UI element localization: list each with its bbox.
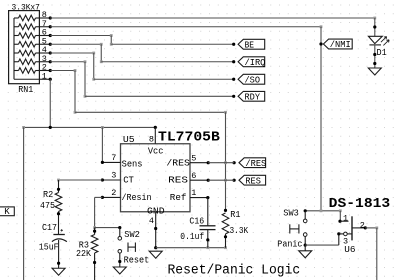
svg-text:1: 1 [42, 71, 47, 81]
wire: RN1 pin2 to pull-up rail [50, 70, 75, 72]
ground symbol below SW3 [304, 245, 306, 251]
RN1 pin 4 [39, 52, 50, 54]
U6 body bar [351, 216, 353, 240]
svg-text:TL7705B: TL7705B [158, 130, 220, 146]
capacitor C16 [200, 225, 216, 227]
wire: RN1 pin4 jog to /SO row [50, 52, 94, 54]
U6 pin 2 (output) [352, 227, 365, 229]
svg-text:/RES: /RES [166, 157, 190, 168]
wire: Vcc rail drop off-sheet (left) [23, 127, 25, 280]
svg-text:/NMI: /NMI [330, 40, 351, 50]
svg-text:2: 2 [111, 188, 116, 198]
wire: pin6 to RES flag [208, 179, 234, 181]
net flag (clipped) K at left edge [0, 207, 14, 216]
svg-text:U5: U5 [123, 134, 135, 145]
svg-text:475: 475 [40, 201, 55, 211]
IC U6 (DS-1813) pin 1 [339, 211, 341, 221]
svg-text:C16: C16 [189, 215, 204, 226]
svg-text:2: 2 [360, 220, 365, 230]
svg-text:Reset: Reset [124, 256, 150, 266]
ground symbol below D1 [368, 68, 381, 75]
net flag BE [238, 39, 265, 49]
U5 pin 3 (CT) [102, 179, 120, 181]
wire: RN1 pin5 jog to /IRQ row [50, 43, 101, 45]
U5 pin 2 (/Resin) [102, 196, 120, 198]
RN1 resistor element 8 [14, 17, 19, 19]
RN1 pin 5 [39, 43, 50, 45]
svg-text:R2: R2 [43, 190, 53, 200]
svg-text:Sens: Sens [122, 158, 143, 169]
resistor R2 [58, 180, 60, 193]
ground symbol below SW2 [113, 267, 126, 274]
svg-text:R1: R1 [230, 210, 240, 220]
RN1 pin 3 [39, 61, 50, 63]
svg-text:0.1uf: 0.1uf [180, 232, 204, 242]
svg-text:CT: CT [123, 175, 134, 185]
svg-text:RN1: RN1 [18, 85, 33, 95]
svg-text:DS-1813: DS-1813 [329, 196, 391, 212]
wire: DS-1813 top rail [305, 210, 340, 212]
RN1 internal common bus [13, 18, 15, 79]
RN1 resistor element 4 [14, 52, 19, 54]
net flag /NMI [323, 39, 352, 49]
net flag RES [239, 175, 266, 185]
svg-text:SW2: SW2 [124, 230, 140, 240]
D1 light arrows [381, 37, 389, 46]
svg-text:8: 8 [149, 134, 154, 144]
svg-text:7: 7 [111, 153, 116, 163]
wire: SW3 bottom rail to U6 pin 3 [305, 244, 339, 246]
U5 pin 6 (RES) [190, 179, 208, 181]
ground symbol below C17 [52, 268, 65, 275]
RN1 resistor element 7 [14, 26, 19, 28]
svg-text:Ref: Ref [170, 192, 187, 203]
RN1 pin 7 [39, 26, 50, 28]
svg-text:15uF: 15uF [39, 242, 59, 252]
net flag RDY [238, 91, 265, 101]
wire: pin5 to /RES flag [208, 162, 234, 164]
svg-text:K: K [4, 207, 10, 217]
svg-text:U6: U6 [344, 245, 355, 255]
wire: RN1 pin6 jog to BE row [50, 35, 111, 37]
wire: node to SW2 [95, 227, 120, 229]
svg-text:RDY: RDY [245, 93, 261, 103]
svg-text:1: 1 [343, 214, 348, 224]
RN1 resistor element 2 [14, 70, 19, 72]
wire: RN1 pin1 to Vcc rail [49, 79, 51, 127]
svg-text:SW3: SW3 [283, 208, 299, 218]
svg-text:3.3K: 3.3K [230, 226, 249, 236]
svg-text:BE: BE [245, 40, 255, 50]
net flag /SO [238, 74, 265, 84]
switch SW2 (pushbutton) [119, 228, 121, 237]
svg-text:/IRQ: /IRQ [245, 58, 266, 68]
op-amp-like IC U5 body (TL7705B) [121, 144, 191, 212]
U5 pin 8 (Vcc) [154, 127, 156, 143]
wire: U6 pin2 off-sheet (bottom right) [365, 227, 377, 229]
wire: CT row to R2 [59, 179, 103, 181]
capacitor C17 (polarized) [53, 234, 64, 236]
U5 pin 1 (Ref) [190, 197, 208, 199]
resistor network RN1 body [9, 11, 40, 84]
svg-text:1: 1 [191, 188, 196, 198]
RN1 pin 2 [39, 70, 50, 72]
resistor R1 [224, 209, 227, 212]
svg-text:6: 6 [191, 171, 196, 181]
net flag /RES [239, 158, 266, 168]
wire: pull-up rail vertical to R1 [225, 112, 227, 210]
RN1 pin 8 [39, 17, 50, 19]
svg-text:/SO: /SO [245, 75, 261, 85]
U6 pin 3 (inverted input) [338, 234, 340, 245]
ground symbol below U5 pin 4 [149, 251, 162, 258]
svg-text:/Resin: /Resin [122, 193, 152, 203]
wire: ground rail under U5 [156, 247, 226, 249]
svg-text:5: 5 [191, 153, 196, 163]
wire: RN1 pin3 jog to RDY row [50, 61, 85, 63]
net flag /IRQ [238, 57, 265, 67]
RN1 resistor element 5 [14, 43, 19, 45]
svg-text:3: 3 [111, 171, 116, 181]
svg-text:D1: D1 [377, 48, 387, 58]
svg-text:Vcc: Vcc [148, 145, 164, 156]
svg-text:RES: RES [245, 176, 261, 186]
wire: D1 cathode to ground [374, 45, 376, 68]
resistor R3 [94, 228, 96, 235]
svg-text:/RES: /RES [245, 159, 266, 169]
wire: RN1 pin7 row to /NMI column [50, 26, 321, 28]
wire: Vcc rail [24, 126, 156, 128]
wire: U5 pin2 to R3/SW2 node [95, 196, 103, 198]
wire: RN1 pin8 row to D1 column [50, 17, 375, 19]
svg-text:4: 4 [149, 216, 154, 226]
svg-text:C17: C17 [42, 223, 57, 233]
RN1 pin 1 [39, 78, 50, 80]
RN1 resistor element 3 [14, 61, 19, 63]
RN1 pin 6 [39, 35, 50, 37]
switch SW3 (pushbutton) [304, 211, 306, 219]
wire: /NMI vertical (down to DS-1813 rail) [320, 27, 322, 211]
U5 pin 5 (/RES) [190, 162, 208, 164]
diode D1 (LED) [368, 36, 382, 43]
svg-text:Reset/Panic Logic: Reset/Panic Logic [168, 263, 301, 278]
svg-text:22K: 22K [76, 249, 92, 259]
wire: D1 anode drop [374, 18, 376, 36]
U5 pin 7 (Sens) [101, 127, 103, 162]
svg-text:Panic: Panic [277, 239, 302, 249]
RN1 resistor element 6 [14, 35, 19, 37]
svg-text:RES: RES [168, 175, 188, 186]
wire: pin1/Ref down to C16 [207, 198, 209, 226]
svg-text:3.3Kx7: 3.3Kx7 [12, 2, 40, 12]
